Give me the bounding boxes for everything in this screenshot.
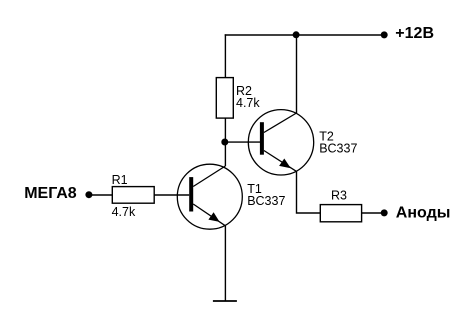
- resistor R2: [216, 78, 260, 119]
- wire R2 bottom to T1 collector: [224, 118, 226, 166]
- node A (R2 / T1 collector / T2 base): [221, 139, 228, 146]
- transistor T2: [248, 110, 357, 175]
- wire T2 emitter down and to R3: [297, 171, 321, 213]
- ground: [213, 300, 237, 302]
- transistor T1: [177, 164, 285, 229]
- resistor R3: [320, 189, 361, 222]
- resistor R1: [112, 173, 155, 219]
- svg-text:R1: R1: [112, 173, 128, 187]
- terminal anodes: [381, 209, 388, 216]
- svg-text:4.7k: 4.7k: [112, 205, 136, 219]
- wire rail to R2 top: [224, 34, 226, 77]
- svg-text:Аноды: Аноды: [396, 205, 451, 222]
- wire MEGA8 terminal to R1: [89, 194, 112, 196]
- svg-text:4.7k: 4.7k: [236, 96, 260, 110]
- svg-text:BC337: BC337: [319, 142, 357, 156]
- wire +12V rail: [225, 34, 381, 36]
- svg-text:R3: R3: [331, 189, 347, 203]
- wire R1 to T1 base: [154, 194, 189, 196]
- wire node to T2 base: [225, 141, 260, 143]
- wire T2 collector to rail: [296, 35, 298, 113]
- terminal MEGA8: [85, 191, 92, 198]
- svg-text:BC337: BC337: [247, 194, 285, 208]
- terminal +12V: [381, 31, 388, 38]
- node junction on rail: [293, 31, 300, 38]
- wire T1 emitter to ground: [224, 226, 226, 301]
- wire R3 to anode terminal: [362, 212, 381, 214]
- svg-text:МЕГА8: МЕГА8: [24, 185, 77, 202]
- svg-text:+12В: +12В: [395, 25, 434, 42]
